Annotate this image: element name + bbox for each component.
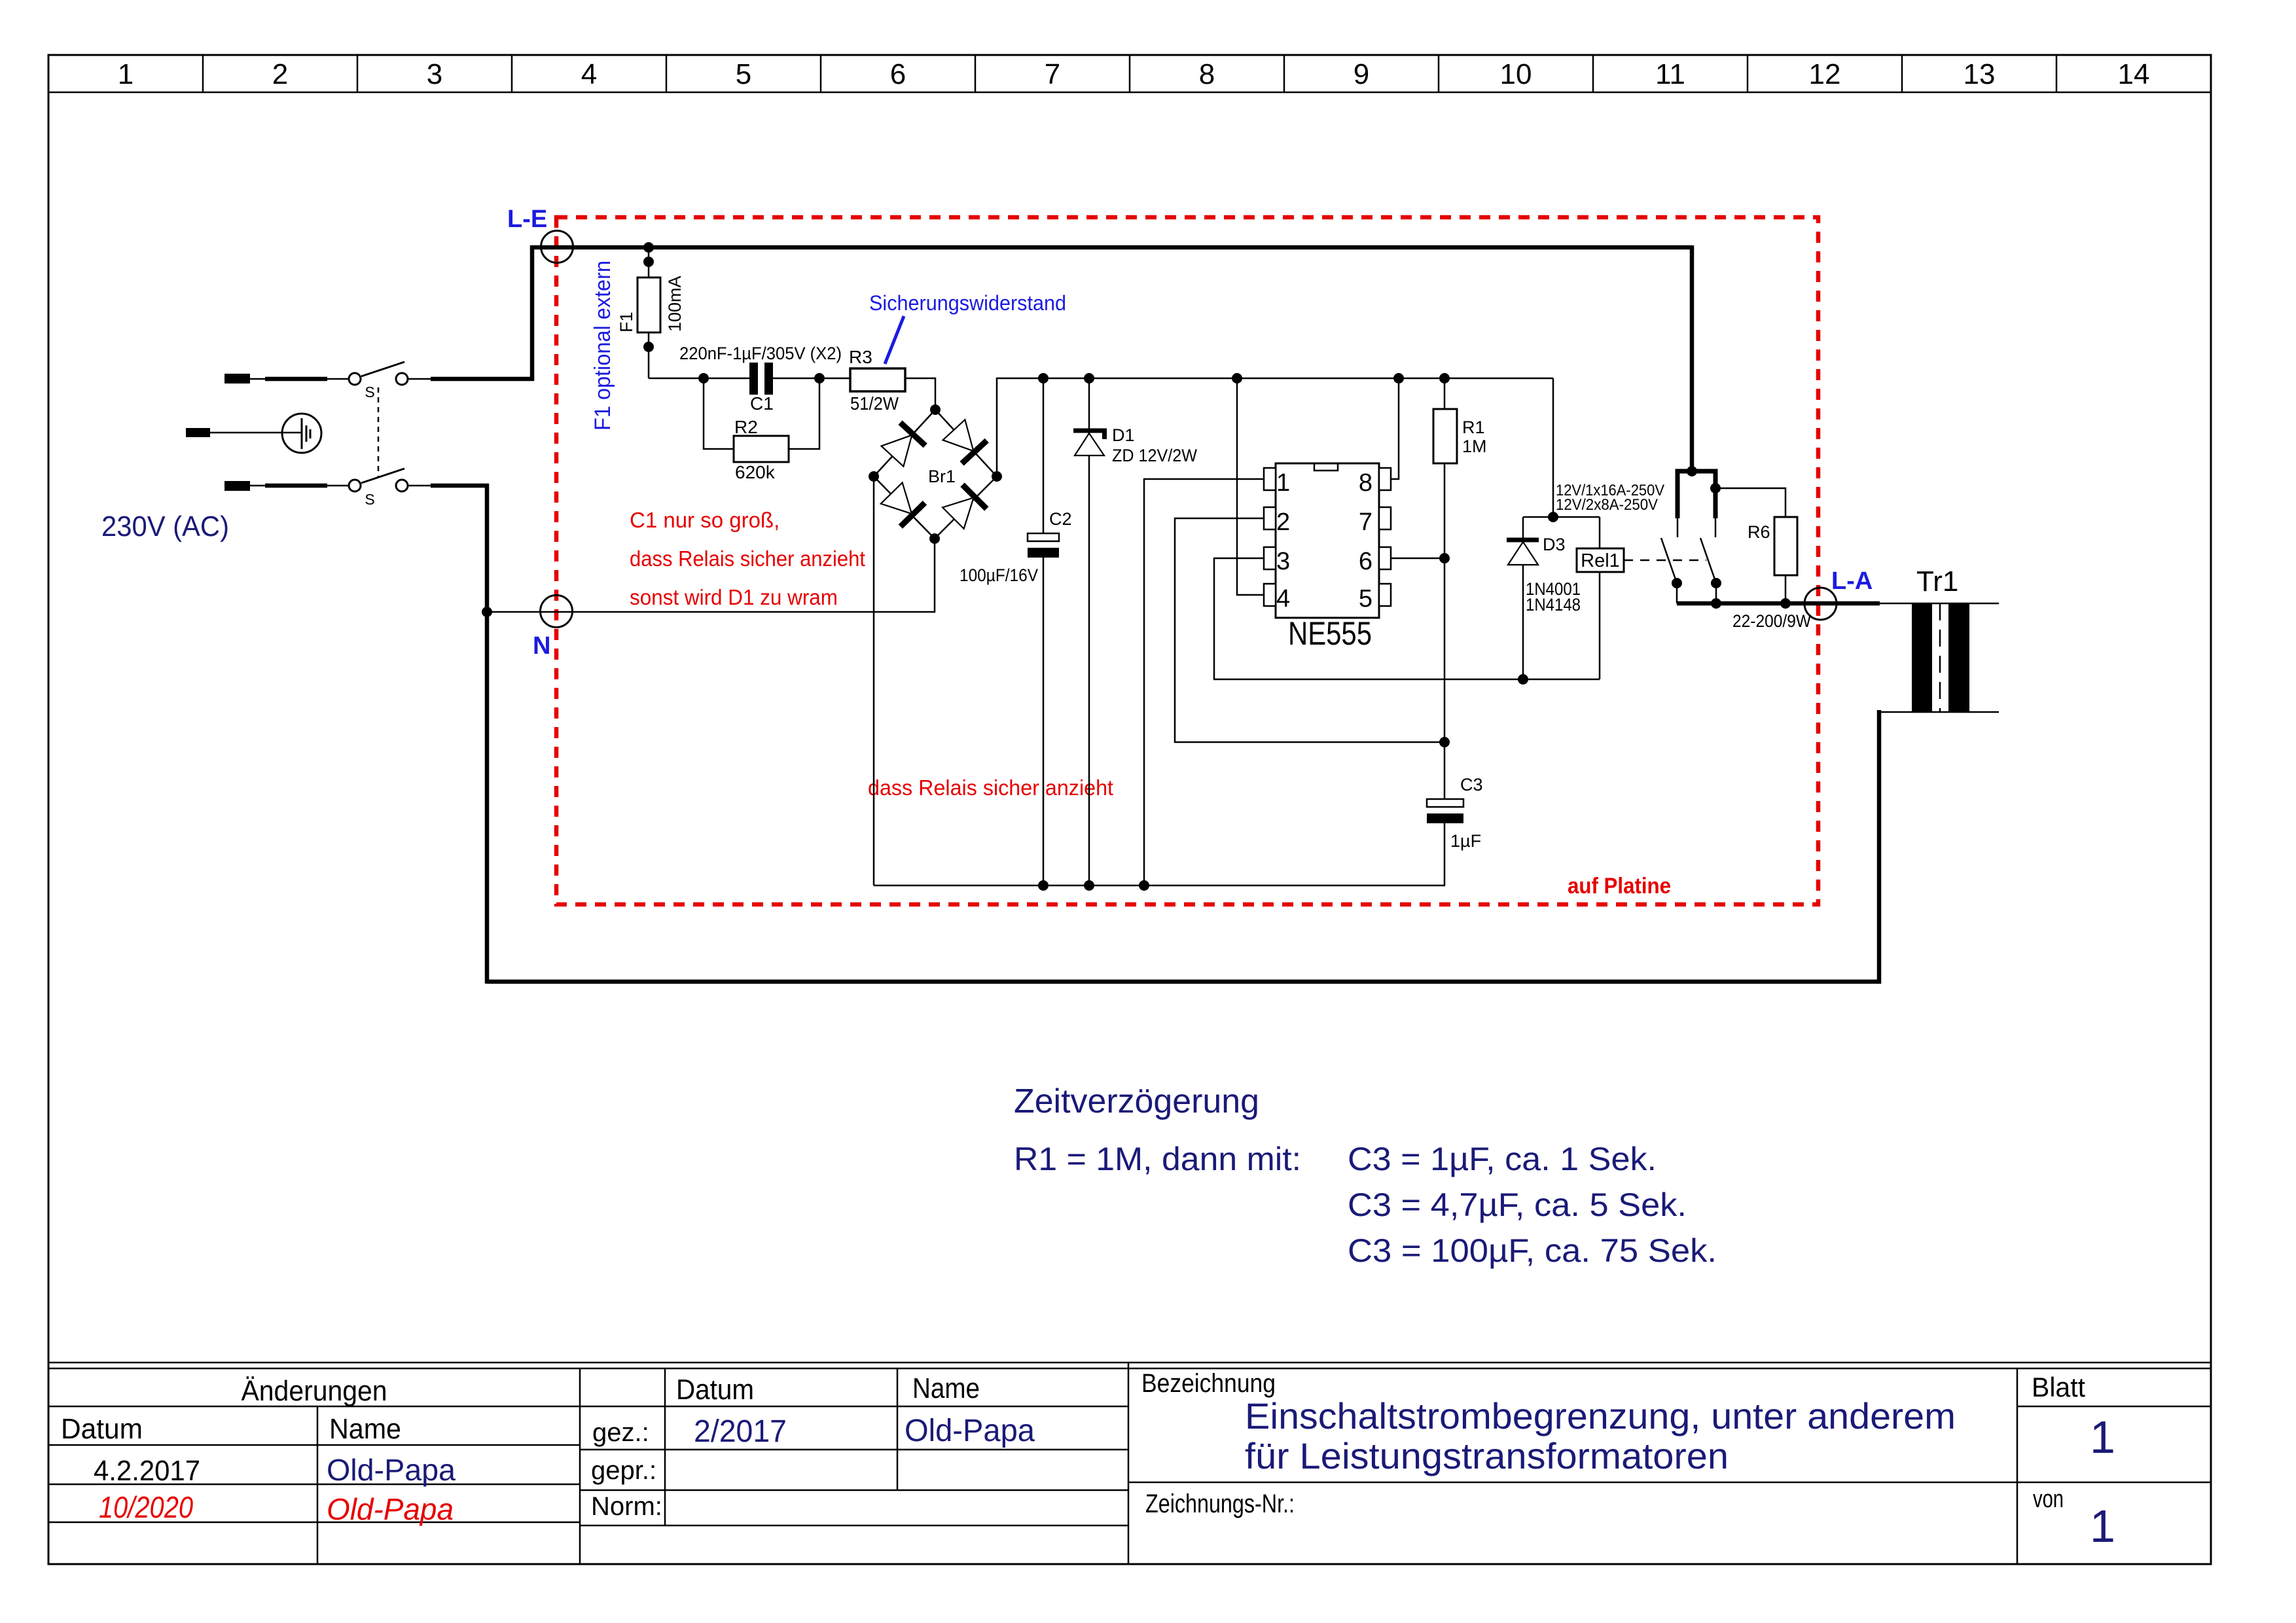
svg-text:ZD 12V/2W: ZD 12V/2W: [1112, 446, 1197, 465]
wire pin2 loop: [1175, 518, 1444, 742]
junction dots bottom rail: [1038, 880, 1049, 891]
wire switch to L-E riser: [408, 378, 432, 380]
svg-text:N: N: [533, 632, 550, 660]
title block texts: [61, 1369, 2085, 1521]
junction dot R1 top: [1439, 373, 1450, 383]
node L-A circle: [1804, 588, 1837, 620]
svg-text:Änderungen: Änderungen: [242, 1375, 387, 1407]
svg-text:C3 = 4,7µF, ca. 5 Sek.: C3 = 4,7µF, ca. 5 Sek.: [1348, 1186, 1687, 1223]
wire PE to ground: [210, 432, 302, 434]
svg-text:620k: 620k: [735, 462, 776, 482]
junction dot pin8 rail: [1393, 373, 1404, 383]
bridge diode bottom-right: [941, 485, 986, 530]
contact pivot dots: [1672, 578, 1682, 588]
junction dot R2 right: [814, 373, 825, 383]
Tr1 primary winding bar: [1912, 603, 1932, 712]
svg-text:4.2.2017: 4.2.2017: [94, 1455, 200, 1487]
svg-text:D1: D1: [1112, 425, 1135, 445]
svg-text:Bezeichnung: Bezeichnung: [1141, 1369, 1276, 1398]
junction dot loop top: [1548, 512, 1558, 522]
svg-text:13: 13: [1964, 58, 1996, 90]
svg-text:22-200/9W: 22-200/9W: [1732, 611, 1811, 631]
wire pin3 loop: [1214, 558, 1600, 679]
junction dot D3 bottom: [1518, 674, 1528, 685]
wire bridge plus up to DC rail: [997, 378, 1553, 476]
pin 2 stub: [1264, 507, 1276, 529]
svg-text:Datum: Datum: [676, 1374, 754, 1406]
contact fork: [1677, 471, 1715, 518]
svg-text:L-E: L-E: [507, 205, 547, 233]
svg-text:R2: R2: [734, 417, 758, 437]
svg-text:F1: F1: [617, 312, 636, 332]
svg-text:C3: C3: [1460, 775, 1483, 794]
bridge diode top-left: [880, 423, 925, 468]
pin 7 stub: [1379, 507, 1391, 529]
wire riser up to top rail: [532, 247, 1692, 381]
svg-text:2/2017: 2/2017: [694, 1414, 787, 1449]
Tr1 core dashed: [1939, 603, 1941, 712]
svg-text:6: 6: [1359, 548, 1372, 575]
svg-text:Einschaltstrombegrenzung, unte: Einschaltstrombegrenzung, unter anderem: [1245, 1395, 1956, 1436]
svg-text:230V (AC): 230V (AC): [101, 510, 229, 543]
svg-text:1: 1: [118, 58, 134, 90]
svg-text:100µF/16V: 100µF/16V: [960, 565, 1038, 585]
fixed contact leads: [1677, 518, 1679, 537]
svg-text:10/2020: 10/2020: [99, 1490, 193, 1524]
svg-text:Old-Papa: Old-Papa: [327, 1492, 454, 1526]
svg-text:1: 1: [1276, 469, 1290, 497]
svg-text:8: 8: [1359, 469, 1372, 497]
title block grid: [48, 1363, 2211, 1564]
svg-text:sonst wird D1 zu wram: sonst wird D1 zu wram: [630, 585, 838, 609]
red dashed board outline "auf Platine": [556, 217, 1818, 904]
svg-text:Zeichnungs-Nr.:: Zeichnungs-Nr.:: [1145, 1489, 1295, 1518]
loop top wires: [1523, 516, 1600, 518]
svg-text:3: 3: [427, 58, 442, 90]
R6 branch top: [1715, 488, 1785, 517]
svg-text:7: 7: [1359, 508, 1372, 536]
Tr1 top lead: [1880, 603, 1999, 605]
wire pin8 to rail: [1391, 378, 1399, 479]
svg-text:auf Platine: auf Platine: [1568, 874, 1671, 899]
wire N to bridge: [487, 539, 935, 612]
contact arm left: [1661, 538, 1677, 583]
wire F1 to C1: [649, 378, 749, 380]
svg-text:L-A: L-A: [1831, 567, 1873, 595]
bridge corner dots: [930, 404, 941, 415]
junction on N wire: [482, 607, 492, 617]
pin 1 stub: [1264, 468, 1276, 490]
chip notch: [1314, 463, 1338, 471]
relay coil Rel1: [1577, 548, 1624, 572]
Zeitverzoegerung text block: [101, 510, 1717, 1269]
svg-text:10: 10: [1500, 58, 1532, 90]
wire F1 vertical: [648, 247, 650, 378]
relay actuation dashed link: [1624, 560, 1706, 562]
svg-text:Datum: Datum: [61, 1413, 143, 1445]
svg-text:9: 9: [1354, 58, 1369, 90]
wire R1/C3 vertical: [1444, 378, 1446, 799]
wire C2 vertical: [1043, 378, 1045, 533]
wire R3 to bridge top: [905, 378, 935, 410]
svg-text:Br1: Br1: [928, 467, 956, 486]
bridge diode top-right: [941, 418, 986, 463]
svg-text:D3: D3: [1543, 535, 1566, 554]
ground (PE) symbol: [282, 414, 321, 453]
junction dot D1 top: [1084, 373, 1094, 383]
bottom rail wire: [874, 885, 1445, 887]
resistor R6: [1774, 517, 1797, 575]
svg-text:1: 1: [2090, 1412, 2115, 1463]
junction dot C2 top: [1038, 373, 1049, 383]
svg-text:Zeitverzögerung: Zeitverzögerung: [1014, 1082, 1259, 1120]
svg-text:4: 4: [581, 58, 597, 90]
resistor R3: [850, 368, 905, 391]
svg-text:6: 6: [890, 58, 906, 90]
svg-text:R3: R3: [849, 347, 872, 367]
contact arm right: [1700, 538, 1716, 583]
svg-text:Name: Name: [912, 1372, 980, 1404]
svg-text:5: 5: [736, 58, 751, 90]
switch link dashed: [378, 387, 380, 476]
wire rail corner down: [1552, 378, 1554, 517]
fuse F1: [637, 277, 660, 332]
svg-text:Blatt: Blatt: [2032, 1372, 2085, 1402]
svg-text:51/2W: 51/2W: [850, 393, 899, 414]
svg-text:NE555: NE555: [1288, 615, 1372, 652]
svg-text:8: 8: [1199, 58, 1215, 90]
capacitor C3: [1427, 799, 1463, 807]
svg-text:7: 7: [1045, 58, 1060, 90]
capacitor C1: [749, 363, 758, 395]
svg-text:Tr1: Tr1: [1916, 565, 1958, 597]
svg-text:R6: R6: [1748, 522, 1770, 542]
bottom return wire: [487, 710, 1879, 982]
svg-text:14: 14: [2118, 58, 2150, 90]
svg-text:1µF: 1µF: [1450, 831, 1481, 851]
svg-text:von: von: [2033, 1486, 2064, 1513]
junction dot R2 left: [698, 373, 709, 383]
svg-text:C3 = 100µF, ca. 75 Sek.: C3 = 100µF, ca. 75 Sek.: [1348, 1232, 1717, 1269]
wire bridge minus down: [873, 476, 875, 885]
svg-text:5: 5: [1359, 585, 1372, 613]
wire N pin to switch: [250, 485, 265, 487]
node L-E circle: [541, 231, 573, 263]
svg-text:S: S: [365, 491, 374, 508]
svg-text:Norm:: Norm:: [591, 1492, 662, 1521]
svg-text:2: 2: [1276, 508, 1290, 536]
svg-text:F1 optional extern: F1 optional extern: [590, 260, 615, 431]
svg-text:1: 1: [2090, 1501, 2115, 1552]
blue arrow line: [885, 316, 904, 364]
diode D3: [1507, 540, 1539, 565]
junction dot R6 tap: [1710, 483, 1721, 493]
svg-text:C3 = 1µF, ca. 1 Sek.: C3 = 1µF, ca. 1 Sek.: [1348, 1141, 1657, 1177]
svg-text:für Leistungstransformatoren: für Leistungstransformatoren: [1245, 1435, 1729, 1476]
svg-text:S: S: [365, 383, 374, 401]
pin 6 stub: [1379, 547, 1391, 569]
plug pin L: [224, 374, 250, 383]
svg-text:R1 = 1M, dann mit:: R1 = 1M, dann mit:: [1014, 1141, 1301, 1177]
switch S lower: [349, 469, 408, 491]
junction dots output wire: [1711, 598, 1721, 609]
junction dot pin2/C3: [1439, 737, 1450, 747]
svg-text:Old-Papa: Old-Papa: [327, 1453, 456, 1487]
red annotation C1 nur so gross: [630, 508, 1113, 800]
svg-text:Old-Papa: Old-Papa: [905, 1414, 1035, 1448]
svg-text:gez.:: gez.:: [592, 1418, 649, 1447]
R2 branch wires: [704, 378, 734, 449]
svg-text:220nF-1µF/305V (X2): 220nF-1µF/305V (X2): [679, 344, 842, 363]
N down wire: [485, 484, 490, 984]
chip body: [1276, 463, 1379, 618]
svg-text:2: 2: [272, 58, 288, 90]
pin 4 stub: [1264, 584, 1276, 606]
pin 3 stub: [1264, 547, 1276, 569]
svg-text:3: 3: [1276, 548, 1290, 575]
svg-text:C2: C2: [1049, 509, 1072, 529]
resistor R1: [1433, 409, 1457, 463]
wire D3 vertical: [1522, 517, 1524, 679]
svg-text:C1 nur so groß,: C1 nur so groß,: [630, 508, 780, 532]
switch S upper: [349, 362, 408, 385]
pin 5 stub: [1379, 584, 1391, 606]
junction dot on rail: [643, 242, 654, 253]
pivot stubs to output wire: [1676, 583, 1678, 603]
svg-text:Sicherungswiderstand: Sicherungswiderstand: [869, 291, 1066, 315]
ruler numbers 1-14: [118, 58, 2150, 90]
svg-text:dass Relais sicher anzieht: dass Relais sicher anzieht: [868, 776, 1113, 800]
svg-text:4: 4: [1276, 585, 1290, 613]
Tr1 secondary winding bar: [1948, 603, 1969, 712]
node N circle: [541, 596, 573, 628]
wire switch to N riser: [408, 485, 432, 487]
wire C1 to R3: [773, 378, 850, 380]
junction dot pin4 rail: [1232, 373, 1242, 383]
junction dot fork: [1687, 466, 1697, 476]
wire C3 bottom to rail: [1444, 823, 1445, 885]
svg-text:1N4148: 1N4148: [1526, 595, 1581, 615]
resistor R2: [734, 436, 789, 462]
svg-text:C1: C1: [750, 393, 774, 414]
svg-text:11: 11: [1655, 58, 1685, 90]
thick feed down to contacts: [1690, 245, 1695, 473]
wire pin1 to ground rail: [1144, 479, 1264, 885]
wire L pin to switch: [250, 378, 265, 380]
svg-text:Name: Name: [329, 1413, 401, 1445]
Tr1 bottom lead: [1879, 711, 1999, 713]
pin 8 stub: [1379, 468, 1391, 490]
svg-text:12V/2x8A-250V: 12V/2x8A-250V: [1556, 496, 1658, 514]
junction dot F1 bottom: [643, 342, 654, 352]
svg-text:100mA: 100mA: [665, 276, 685, 332]
pin numbers: [1276, 469, 1372, 613]
wire D1 vertical: [1088, 378, 1090, 432]
zener D1: [1073, 431, 1107, 455]
wire pin6 to R1: [1391, 558, 1444, 560]
wire pin4 to rail: [1237, 378, 1264, 595]
svg-text:R1: R1: [1462, 418, 1485, 437]
ruler band: [48, 55, 2211, 92]
junction dot pin6: [1439, 553, 1450, 563]
svg-text:1M: 1M: [1462, 437, 1487, 456]
bridge diode bottom-left: [880, 481, 925, 526]
svg-text:Rel1: Rel1: [1581, 550, 1620, 571]
junction dot below rail: [643, 257, 654, 267]
svg-text:12: 12: [1809, 58, 1841, 90]
svg-text:gepr.:: gepr.:: [591, 1456, 656, 1485]
R6 bottom lead: [1785, 575, 1787, 603]
plug pin PE: [186, 428, 210, 437]
plug pin N: [224, 481, 250, 491]
svg-text:dass Relais sicher anzieht: dass Relais sicher anzieht: [630, 546, 865, 571]
wire Rel1 vertical: [1599, 517, 1601, 548]
capacitor C2: [1028, 533, 1059, 541]
output wire to Tr1: [1677, 601, 1880, 606]
